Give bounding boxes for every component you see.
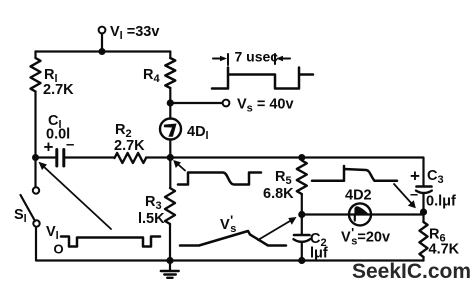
svg-text:6.8K: 6.8K [263, 186, 294, 202]
resistor R5 [297, 161, 307, 195]
wire top rail [36, 50, 171, 52]
junction ground node [166, 257, 173, 264]
arrow to node B [177, 163, 186, 171]
junction node B [167, 154, 174, 161]
junction [99, 48, 106, 55]
wire R5 to node C [301, 194, 303, 215]
svg-text:+: + [410, 166, 420, 185]
svg-text:2.7K: 2.7K [43, 82, 74, 98]
svg-text:7 usec: 7 usec [235, 49, 279, 65]
svg-text:–: – [410, 187, 418, 203]
svg-text:0.lμf: 0.lμf [426, 194, 456, 210]
switch S1 [33, 187, 39, 193]
svg-text:2.7K: 2.7K [114, 138, 145, 154]
svg-text:4Dl: 4Dl [187, 124, 209, 142]
wire R3 to ground rail [169, 224, 171, 261]
wire node D to R6 [422, 212, 424, 222]
wire to Vs terminal [170, 102, 222, 104]
dimension tick left [227, 54, 229, 65]
dimension tick right [274, 54, 276, 64]
capacitor C1 [55, 150, 58, 167]
node V1 supply terminal [99, 27, 106, 34]
wire R4 vertical top [169, 52, 171, 59]
svg-text:4D2: 4D2 [345, 188, 372, 204]
wire mid rail right [302, 158, 424, 187]
junction node D [420, 208, 427, 215]
wire switch branch [34, 158, 36, 188]
wire [101, 34, 103, 52]
wire 4D1 to node B [169, 140, 171, 158]
svg-text:O: O [54, 242, 64, 257]
resistor R3 [165, 188, 175, 224]
wire R2 to node B [146, 156, 170, 158]
resistor R2 [115, 153, 147, 163]
junction R5 top [298, 154, 305, 161]
arrow to node D [394, 184, 413, 205]
svg-text:Vl =33v: Vl =33v [110, 24, 159, 42]
wire node B down [169, 158, 171, 189]
resistor R6 [420, 222, 428, 257]
svg-text:Vs = 40v: Vs = 40v [237, 97, 294, 115]
svg-text:R5: R5 [275, 169, 292, 187]
dimension arrow right [280, 58, 291, 60]
dimension arrow left [213, 58, 224, 60]
wire left vertical upper [34, 52, 36, 59]
wire below switch [36, 227, 170, 261]
waveform sawtooth Vs' [180, 231, 286, 246]
svg-text:R3: R3 [145, 194, 162, 212]
capacitor C3 [417, 185, 432, 188]
wire node to 4D1 [169, 103, 171, 119]
four-layer diode 4D1 [160, 119, 181, 140]
svg-text:C3: C3 [427, 168, 444, 186]
ground [169, 261, 171, 272]
waveform V1 input pulse [61, 237, 160, 247]
waveform anode spike [312, 166, 397, 181]
wire R4 to node [169, 88, 171, 103]
resistor R4 [165, 58, 175, 88]
svg-text:+: + [44, 137, 54, 156]
arrow to node A [43, 166, 112, 230]
junction C2 bottom [298, 257, 305, 264]
svg-text:V's=20v: V's=20v [341, 225, 390, 248]
svg-text:Vl: Vl [46, 224, 59, 242]
waveform collector pulse [178, 173, 261, 185]
svg-text:lμf: lμf [310, 246, 328, 262]
junction Vs node [167, 99, 174, 106]
svg-text:–: – [66, 136, 74, 153]
resistor R1 [31, 58, 41, 92]
wire node C to 4D2 to node D [302, 213, 424, 215]
svg-text:R4: R4 [143, 67, 160, 85]
svg-text:4.7K: 4.7K [429, 242, 460, 258]
svg-text:Sl: Sl [14, 207, 27, 225]
svg-text:l.5K: l.5K [138, 211, 165, 227]
wire R6 to bottom rail [422, 257, 424, 261]
junction node C [298, 211, 305, 218]
wire C1 to R2 [65, 156, 115, 158]
svg-text:V's: V's [220, 213, 236, 236]
node Vs terminal [223, 100, 230, 107]
capacitor C2 [301, 215, 303, 236]
arrow to node C [258, 220, 293, 241]
wire left vertical to C1 node [34, 92, 36, 158]
junction node A [32, 154, 39, 161]
wire bottom rail [170, 259, 424, 261]
four-layer diode 4D2 [349, 203, 371, 225]
svg-text:SeekIC.com: SeekIC.com [352, 260, 471, 283]
wire to C1 [36, 156, 56, 158]
wire mid rail [170, 156, 301, 158]
waveform 7usec square wave [212, 68, 313, 89]
